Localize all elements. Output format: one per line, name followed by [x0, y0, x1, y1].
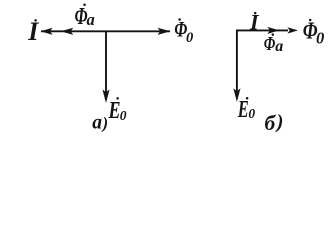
svg-text:0: 0	[248, 106, 255, 121]
svg-text:0: 0	[316, 28, 324, 47]
svg-text:0: 0	[120, 108, 127, 123]
svg-text:Φ: Φ	[264, 33, 276, 55]
svg-text:E: E	[237, 97, 249, 123]
svg-text:б: б	[265, 111, 277, 135]
svg-text:а: а	[87, 10, 95, 29]
svg-text:а: а	[92, 109, 102, 133]
svg-text:I: I	[27, 17, 39, 46]
svg-text:0: 0	[186, 30, 193, 46]
svg-text:E: E	[108, 98, 121, 124]
svg-text:а: а	[275, 38, 283, 55]
svg-text:): )	[275, 111, 284, 133]
svg-text:): )	[101, 114, 109, 133]
